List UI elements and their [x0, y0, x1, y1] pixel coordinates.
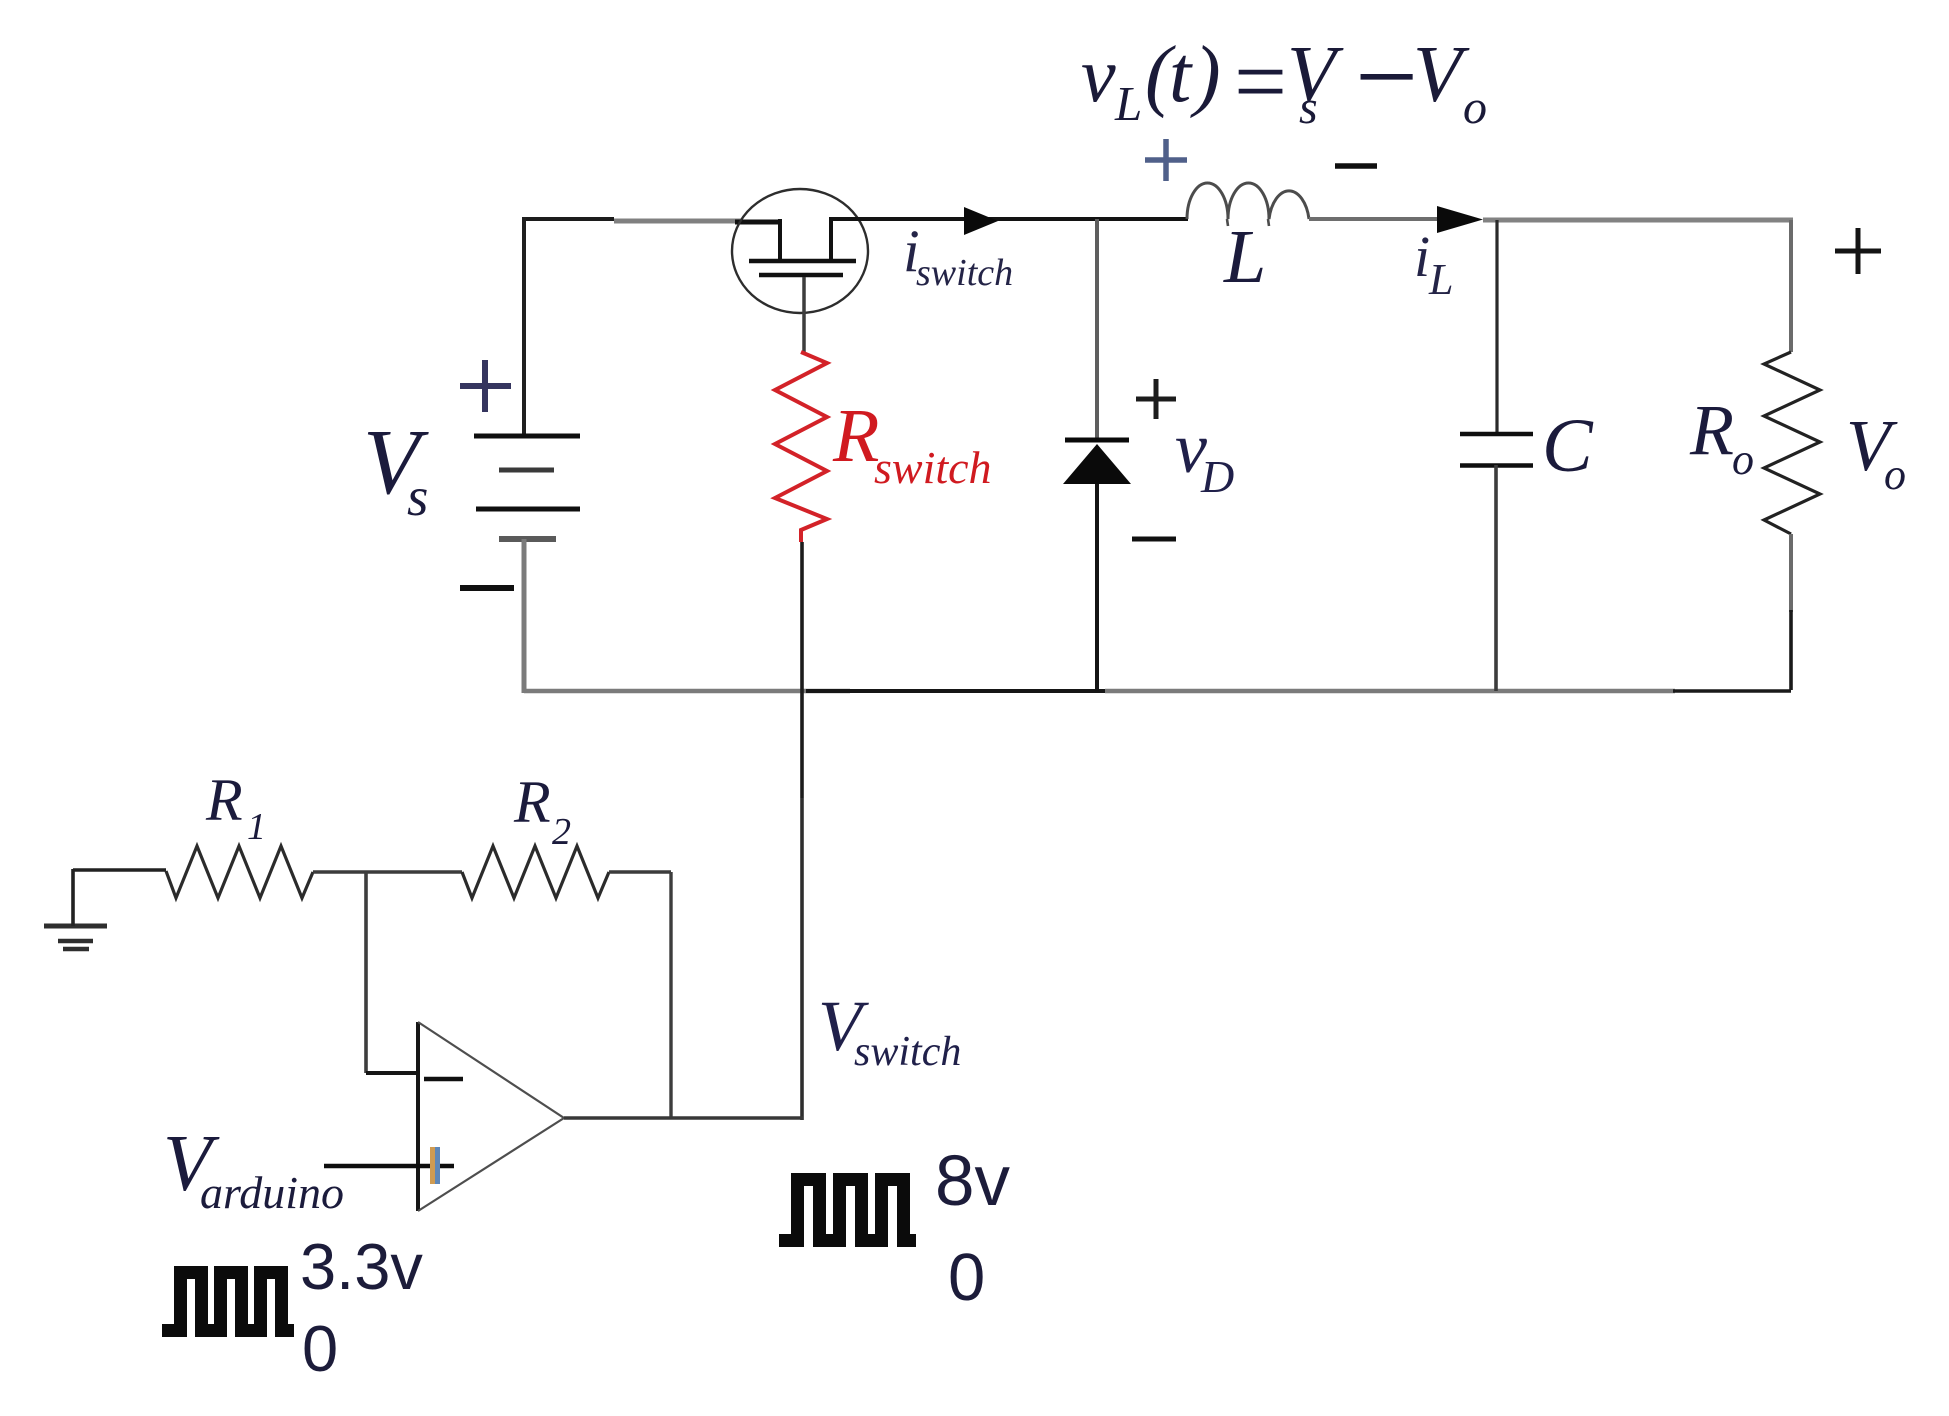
svg-text:V: V [1413, 31, 1470, 119]
wire left vertical top (battery to top wire) [522, 217, 526, 436]
minus sign inductor right [1335, 163, 1377, 169]
capacitor C plates [1460, 434, 1533, 466]
wire diode branch top [1095, 219, 1099, 440]
wire diode branch bottom [1095, 484, 1099, 691]
label Vs [363, 411, 429, 527]
plus sign battery [460, 360, 511, 412]
arrow i_switch [964, 207, 998, 235]
wire capacitor branch bottom [1494, 465, 1498, 691]
svg-text:1: 1 [247, 806, 266, 848]
resistor Ro zigzag [1764, 352, 1820, 534]
arrow i_L [1437, 206, 1483, 233]
svg-text:R: R [205, 767, 243, 833]
label Vswitch [818, 986, 961, 1075]
wire bottom horizontal [524, 689, 1791, 694]
wire R2 to feedback corner [609, 870, 671, 873]
resistor Rswitch red zigzag [775, 352, 827, 542]
svg-text:R: R [1689, 390, 1734, 470]
label formula vL(t)=Vs-Vo [1081, 15, 1487, 139]
svg-text:R: R [513, 769, 551, 835]
svg-text:arduino: arduino [200, 1167, 344, 1218]
wire ground stub [71, 869, 75, 926]
plus sign inductor left [1145, 139, 1187, 181]
ground symbol [44, 926, 107, 949]
diode D cathode bar [1065, 438, 1129, 443]
minus sign diode [1132, 537, 1176, 542]
wire op-amp output [564, 1116, 803, 1119]
svg-text:switch: switch [854, 1029, 961, 1075]
wire junction down to inverting input [364, 872, 368, 1073]
svg-text:): ) [1190, 31, 1221, 119]
plus sign Vo [1835, 228, 1881, 274]
label Vo [1846, 405, 1906, 499]
svg-text:s: s [1299, 81, 1318, 134]
transistor source stub [829, 217, 833, 262]
label R2 [513, 769, 571, 853]
svg-text:o: o [1463, 81, 1487, 134]
label i_switch [903, 218, 1013, 294]
wire inductor to iL arrow [1309, 217, 1461, 221]
transistor MOSFET circle [732, 189, 868, 313]
battery Vs plates [474, 436, 580, 539]
svg-text:8v: 8v [935, 1142, 1010, 1221]
wire ground to R1 [73, 868, 166, 872]
svg-text:s: s [407, 466, 428, 527]
minus sign battery [460, 585, 514, 591]
wire R1 to junction to R2 [313, 870, 462, 873]
diode D triangle [1063, 444, 1131, 484]
wire op-amp plus input [324, 1164, 454, 1169]
label vD [1175, 408, 1234, 502]
svg-text:L: L [1428, 255, 1453, 304]
svg-text:i: i [1414, 224, 1430, 289]
transistor gate stem down [802, 277, 806, 354]
plus sign op-amp input (colored bar) [433, 1147, 438, 1184]
wire capacitor branch top [1495, 220, 1498, 434]
svg-text:−: − [1355, 15, 1418, 139]
svg-text:=: = [1234, 30, 1287, 134]
wire elbow to op-amp minus input [366, 1071, 418, 1075]
label Varduino [163, 1120, 344, 1218]
svg-text:2: 2 [552, 811, 571, 853]
minus sign op-amp input [424, 1077, 463, 1082]
label R1 [205, 767, 266, 848]
svg-text:switch: switch [916, 252, 1013, 294]
svg-text:switch: switch [874, 442, 992, 493]
wire right vertical upper [1789, 220, 1793, 352]
transistor channel bar [749, 259, 856, 264]
waveform PWM 3.3v glyph [162, 1273, 294, 1331]
svg-text:o: o [1884, 450, 1906, 499]
label Ro [1689, 390, 1754, 484]
svg-text:o: o [1732, 435, 1754, 484]
svg-text:3.3v: 3.3v [300, 1230, 423, 1303]
svg-text:R: R [832, 394, 879, 478]
wire MOSFET to diode node [831, 217, 1188, 221]
svg-text:D: D [1200, 451, 1234, 502]
waveform PWM 8v glyph [779, 1180, 916, 1241]
svg-text:0: 0 [948, 1240, 985, 1315]
label Rswitch [832, 394, 992, 493]
wire right vertical lower [1789, 534, 1793, 612]
inductor L arcs [1187, 183, 1309, 219]
plus sign diode [1136, 379, 1176, 419]
wire top-left horizontal from battery top to MOSFET [522, 219, 742, 221]
svg-text:C: C [1542, 404, 1594, 488]
svg-text:t: t [1169, 31, 1193, 119]
wire feedback vertical down to output [669, 872, 672, 1118]
wire top right to corner [1483, 218, 1793, 223]
svg-text:0: 0 [302, 1312, 338, 1385]
resistor R1 zigzag [166, 846, 313, 898]
transistor gate bar [759, 273, 843, 278]
label i_L [1414, 224, 1453, 304]
node drain entry (black L into MOSFET) [735, 219, 780, 262]
resistor R2 zigzag [462, 846, 609, 898]
svg-text:L: L [1223, 215, 1266, 299]
wire left vertical bottom (battery to bottom wire) [522, 539, 527, 693]
svg-text:L: L [1114, 76, 1142, 131]
wire Vswitch vertical (Rswitch to op-amp output) [800, 542, 804, 1120]
op-amp U1 triangle [418, 1022, 564, 1211]
svg-text:v: v [1081, 31, 1116, 118]
